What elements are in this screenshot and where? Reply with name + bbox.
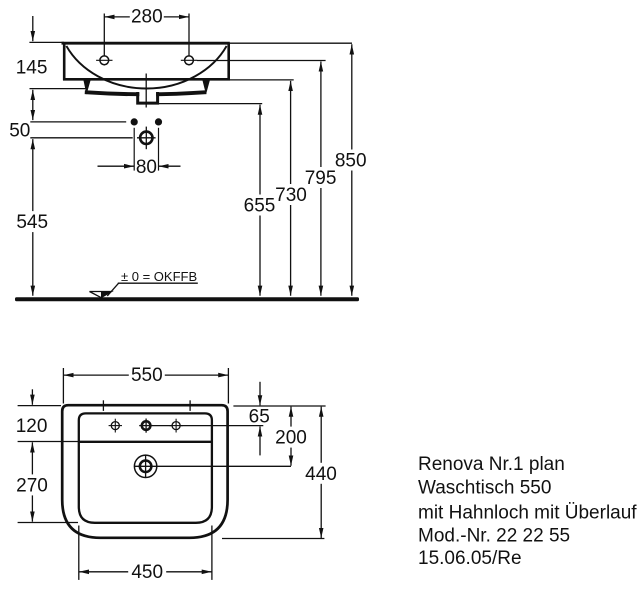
svg-text:120: 120: [16, 416, 48, 437]
svg-text:± 0 = OKFFB: ± 0 = OKFFB: [121, 269, 197, 284]
svg-text:440: 440: [305, 464, 337, 485]
svg-text:80: 80: [136, 157, 157, 178]
svg-text:270: 270: [16, 476, 48, 497]
svg-text:15.06.05/Re: 15.06.05/Re: [418, 548, 522, 569]
svg-text:Waschtisch 550: Waschtisch 550: [418, 478, 551, 499]
svg-text:Mod.-Nr. 22 22 55: Mod.-Nr. 22 22 55: [418, 525, 570, 546]
svg-text:730: 730: [275, 185, 307, 206]
svg-text:850: 850: [335, 151, 367, 172]
svg-text:Renova Nr.1 plan: Renova Nr.1 plan: [418, 454, 565, 475]
svg-text:200: 200: [275, 428, 307, 449]
svg-text:280: 280: [131, 7, 163, 28]
svg-text:655: 655: [244, 196, 276, 217]
svg-text:mit Hahnloch mit Überlauf: mit Hahnloch mit Überlauf: [418, 502, 637, 523]
svg-text:550: 550: [131, 365, 163, 386]
svg-text:50: 50: [9, 121, 30, 142]
svg-text:145: 145: [16, 57, 48, 78]
svg-text:450: 450: [131, 562, 163, 583]
svg-text:65: 65: [249, 406, 270, 427]
svg-text:545: 545: [16, 212, 48, 233]
